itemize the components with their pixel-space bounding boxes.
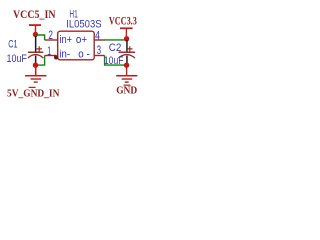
svg-text:5V_GND_IN: 5V_GND_IN [7,87,59,99]
wire from VCC5_IN junction to pin 2 [36,35,45,40]
wire from pin 4 to VCC3.3 junction [104,39,127,41]
svg-text:C2: C2 [109,42,122,54]
wire from pin 3 to C2 bottom junction [105,56,127,66]
power port VCC3.3 [109,14,137,38]
ground 5V_GND_IN [7,65,59,99]
capacitor C2 [119,40,136,64]
power port VCC5_IN [13,9,56,34]
pin 3 stub [94,55,105,56]
svg-text:10uF: 10uF [7,53,28,65]
pin 2 stub [45,39,58,40]
svg-text:4: 4 [95,30,100,42]
wire from C1 bottom junction to pin 1 [36,56,45,66]
ground GND [116,65,137,96]
svg-text:3: 3 [97,45,101,57]
svg-text:C1: C1 [8,39,17,51]
svg-text:VCC3.3: VCC3.3 [109,14,137,28]
capacitor C1 [28,36,43,64]
svg-text:IL0503S: IL0503S [66,19,102,31]
svg-text:10uF: 10uF [104,55,124,67]
svg-text:GND: GND [116,84,137,96]
svg-text:in+: in+ [59,34,72,46]
junction node at C2 top [124,36,129,41]
svg-text:VCC5_IN: VCC5_IN [13,9,56,21]
pin 4 stub [94,39,105,40]
junction node at C1 bottom [33,62,38,67]
svg-text:1: 1 [47,46,51,58]
junction node at C1 top [33,32,38,37]
svg-text:o -: o - [78,49,90,61]
pin 1 stub with connection blob [45,55,57,56]
svg-text:o+: o+ [76,34,87,46]
svg-text:2: 2 [48,30,53,42]
DC-DC module H1 box [58,31,94,60]
junction node at C2 bottom [124,62,129,67]
svg-text:in-: in- [59,49,70,61]
